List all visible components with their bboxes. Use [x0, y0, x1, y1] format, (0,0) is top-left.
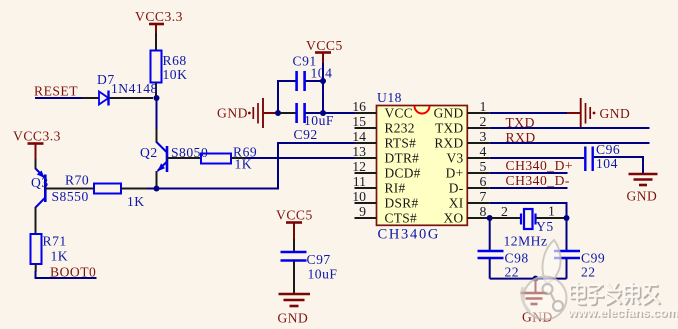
svg-text:C92: C92 — [294, 127, 318, 142]
node (crystal right junction) — [564, 215, 570, 221]
svg-text:CH340_D+: CH340_D+ — [506, 158, 574, 173]
watermark text 电子发烧友 (simulated glyphs, gray shadow layer) — [571, 283, 660, 305]
capacitor C96 — [585, 142, 620, 171]
wire (junction up to C91 row) — [278, 81, 296, 113]
wire (junction down to Q2 collector) — [156, 98, 158, 130]
pin 7 XI — [449, 189, 490, 211]
node (C92/VCC junction) — [320, 110, 326, 116]
capacitor C99 — [554, 251, 605, 280]
ground GND (pin 1, power-ground symbol) — [581, 98, 631, 128]
svg-text:GND: GND — [600, 106, 631, 121]
svg-text:1: 1 — [548, 204, 555, 219]
svg-text:12: 12 — [352, 159, 366, 174]
resistor R70 — [65, 173, 145, 210]
svg-text:R68: R68 — [163, 53, 187, 68]
svg-text:XI: XI — [449, 196, 464, 211]
wire (pin 7 XI to crystal right) — [490, 203, 567, 218]
svg-text:6: 6 — [480, 174, 487, 189]
svg-text:3: 3 — [480, 129, 487, 144]
svg-text:1: 1 — [480, 99, 487, 114]
wire (bottom rail) — [490, 278, 567, 280]
wire (R69 to pin 13 DTR#) — [231, 157, 247, 159]
pin 14 RTS# — [352, 129, 416, 151]
transistor Q2 S8050 — [140, 142, 208, 172]
wire TXD net — [490, 127, 650, 129]
svg-text:VCC3.3: VCC3.3 — [13, 129, 61, 144]
svg-text:10: 10 — [352, 189, 366, 204]
wire (R71 to BOOT0) — [35, 264, 37, 272]
wire (C96 to ground) — [594, 157, 643, 173]
svg-text:RXD: RXD — [506, 130, 536, 145]
wire (VCC3.3 to R68 top) — [155, 33, 157, 51]
wire (C92 to pin 16 VCC) — [306, 112, 357, 114]
svg-text:R71: R71 — [43, 234, 67, 249]
pin 15 R232 — [352, 114, 415, 136]
ground GND (left, power-ground symbol) — [217, 98, 277, 128]
pin 9 CTS# — [355, 204, 417, 226]
ground GND (right of C96, earth symbol) — [627, 174, 658, 204]
svg-text:4: 4 — [480, 144, 487, 159]
svg-text:1N4148: 1N4148 — [111, 81, 158, 96]
svg-text:15: 15 — [352, 114, 366, 129]
wire (C97 to ground) — [293, 261, 295, 293]
svg-text:D+: D+ — [446, 166, 464, 181]
wire (Q2 emitter down to junction) — [156, 171, 158, 186]
svg-text:C97: C97 — [307, 252, 331, 267]
power symbol VCC3.3 (top, above R68) — [135, 9, 183, 34]
svg-text:U18: U18 — [377, 90, 402, 105]
svg-text:www.elecfans.com: www.elecfans.com — [567, 306, 678, 320]
wire (VCC3.3 to Q3 emitter) — [35, 159, 37, 169]
svg-text:Y5: Y5 — [536, 219, 554, 234]
svg-text:104: 104 — [596, 156, 618, 171]
svg-text:VCC5: VCC5 — [276, 208, 313, 223]
node (GND / C91 / C92 junction) — [275, 110, 281, 116]
svg-text:TXD: TXD — [506, 115, 535, 130]
svg-text:DSR#: DSR# — [385, 196, 419, 211]
wire (R68 bottom to node) — [155, 83, 157, 99]
wire CH340_D+ net — [490, 172, 568, 174]
svg-text:TXD: TXD — [435, 121, 463, 136]
wire (junction right and up to pin 14 RTS#) — [157, 143, 357, 189]
power symbol VCC5 (top) — [306, 38, 343, 64]
svg-text:16: 16 — [352, 99, 366, 114]
wire (C91 right to VCC5 node) — [306, 80, 324, 82]
svg-text:R232: R232 — [385, 121, 415, 136]
transistor Q3 S8550 — [31, 169, 89, 208]
svg-text:RESET: RESET — [34, 84, 78, 99]
svg-text:22: 22 — [505, 265, 520, 280]
svg-text:8: 8 — [480, 204, 487, 219]
ground GND (below C97, earth symbol) — [278, 294, 311, 326]
power symbol VCC3.3 (left, above Q3) — [13, 129, 61, 160]
node (C91/VCC5 junction) — [320, 78, 326, 84]
svg-text:10uF: 10uF — [304, 113, 334, 128]
svg-text:CH340G: CH340G — [378, 227, 441, 243]
wire CH340_D- net — [490, 187, 568, 189]
wire (R70 to emitter junction) — [121, 188, 148, 190]
wire (Q3 base to R70) — [45, 188, 94, 190]
wire (right junction down to C99) — [566, 218, 568, 250]
capacitor C97 — [281, 252, 338, 282]
svg-text:10uF: 10uF — [308, 267, 338, 282]
node (Q2 emitter / R70 junction) — [154, 186, 160, 192]
wire (Q3 collector to R71) — [35, 207, 37, 234]
svg-text:DTR#: DTR# — [385, 151, 420, 166]
svg-text:GND: GND — [627, 189, 658, 204]
svg-text:13: 13 — [352, 144, 366, 159]
wire (C99 down to bottom rail) — [566, 259, 568, 279]
svg-text:RTS#: RTS# — [385, 136, 417, 151]
svg-text:5: 5 — [480, 159, 487, 174]
svg-text:1K: 1K — [51, 249, 69, 264]
svg-text:C98: C98 — [505, 251, 529, 266]
wire (row to C92) — [280, 112, 296, 114]
svg-text:14: 14 — [352, 129, 366, 144]
svg-text:R70: R70 — [65, 173, 89, 188]
svg-text:9: 9 — [359, 204, 366, 219]
pin 1 GND — [434, 99, 490, 121]
node (RESET/R68/Q2 collector junction) — [154, 95, 160, 101]
power symbol VCC5 (bottom, above C97) — [276, 208, 313, 240]
svg-text:RXD: RXD — [434, 136, 463, 151]
wire (VCC5 down through node to pin16 row) — [322, 63, 324, 113]
svg-text:VCC3.3: VCC3.3 — [135, 9, 183, 24]
svg-text:12MHz: 12MHz — [504, 234, 548, 249]
svg-text:2: 2 — [480, 114, 487, 129]
svg-text:Q2: Q2 — [140, 145, 158, 160]
capacitor C92 — [294, 103, 334, 142]
resistor R69 — [201, 145, 257, 172]
svg-text:VCC: VCC — [385, 106, 413, 121]
crystal Y5 12MHz — [501, 204, 555, 249]
wire (left junction down to C98) — [489, 218, 491, 250]
wire (pin 1 to GND) — [490, 112, 568, 114]
svg-text:11: 11 — [353, 174, 366, 189]
wire (pin 8 to crystal) — [490, 217, 521, 219]
svg-text:2: 2 — [501, 204, 508, 219]
svg-text:DCD#: DCD# — [385, 166, 421, 181]
pin 13 DTR# — [352, 144, 419, 166]
pin 3 RXD — [434, 129, 489, 151]
svg-text:RI#: RI# — [385, 181, 406, 196]
pin 12 DCD# — [352, 159, 420, 181]
svg-text:S8550: S8550 — [52, 189, 89, 204]
wire (pin 4 to C96) — [490, 157, 584, 159]
svg-text:CTS#: CTS# — [385, 211, 417, 226]
svg-text:CH340_D-: CH340_D- — [506, 173, 570, 188]
svg-text:GND: GND — [217, 106, 248, 121]
pin 5 D+ — [446, 159, 490, 181]
wire RXD net — [490, 142, 650, 144]
svg-text:GND: GND — [434, 106, 464, 121]
resistor R71 — [31, 234, 69, 265]
pin 10 DSR# — [352, 189, 418, 211]
wire (VCC5 to C97) — [293, 239, 295, 251]
svg-text:104: 104 — [311, 66, 333, 81]
ground GND (below crystal, earth symbol) — [521, 293, 553, 325]
pin 8 XO — [444, 204, 490, 226]
svg-text:22: 22 — [581, 265, 596, 280]
node (bottom rail / ground junction) — [533, 276, 539, 282]
svg-text:C96: C96 — [596, 142, 620, 157]
wire (C98 down to bottom rail) — [489, 259, 491, 279]
pin 2 TXD — [435, 114, 490, 136]
svg-text:BOOT0: BOOT0 — [50, 265, 96, 280]
capacitor C98 — [478, 251, 529, 280]
wire (junction to ground) — [535, 279, 537, 292]
resistor R68 — [151, 51, 188, 83]
wire RESET net — [35, 97, 82, 99]
svg-text:VCC5: VCC5 — [306, 38, 343, 53]
capacitor C91 — [293, 54, 333, 92]
watermark text 电子发烧友 (white top layer) — [570, 282, 659, 304]
pin 16 VCC — [352, 99, 413, 121]
wire (crystal to right junction) — [537, 217, 567, 219]
IC notch arc — [415, 106, 430, 114]
svg-text:C99: C99 — [581, 251, 605, 266]
svg-text:XO: XO — [444, 211, 464, 226]
op-amp U18 (CH340G IC body) — [377, 90, 468, 243]
svg-text:V3: V3 — [447, 151, 464, 166]
svg-text:D-: D- — [449, 181, 464, 196]
svg-text:GND: GND — [278, 311, 309, 326]
pin 11 RI# — [353, 174, 406, 196]
svg-text:7: 7 — [480, 189, 487, 204]
node (crystal left junction) — [487, 215, 493, 221]
pin 6 D- — [449, 174, 490, 196]
pin 4 V3 — [447, 144, 490, 166]
svg-text:10K: 10K — [163, 67, 188, 82]
diode D7 1N4148 — [82, 72, 158, 106]
svg-text:1K: 1K — [127, 194, 145, 209]
wire (Q2 base to R69) — [167, 157, 201, 159]
watermark logo (elecfans) — [522, 240, 567, 320]
